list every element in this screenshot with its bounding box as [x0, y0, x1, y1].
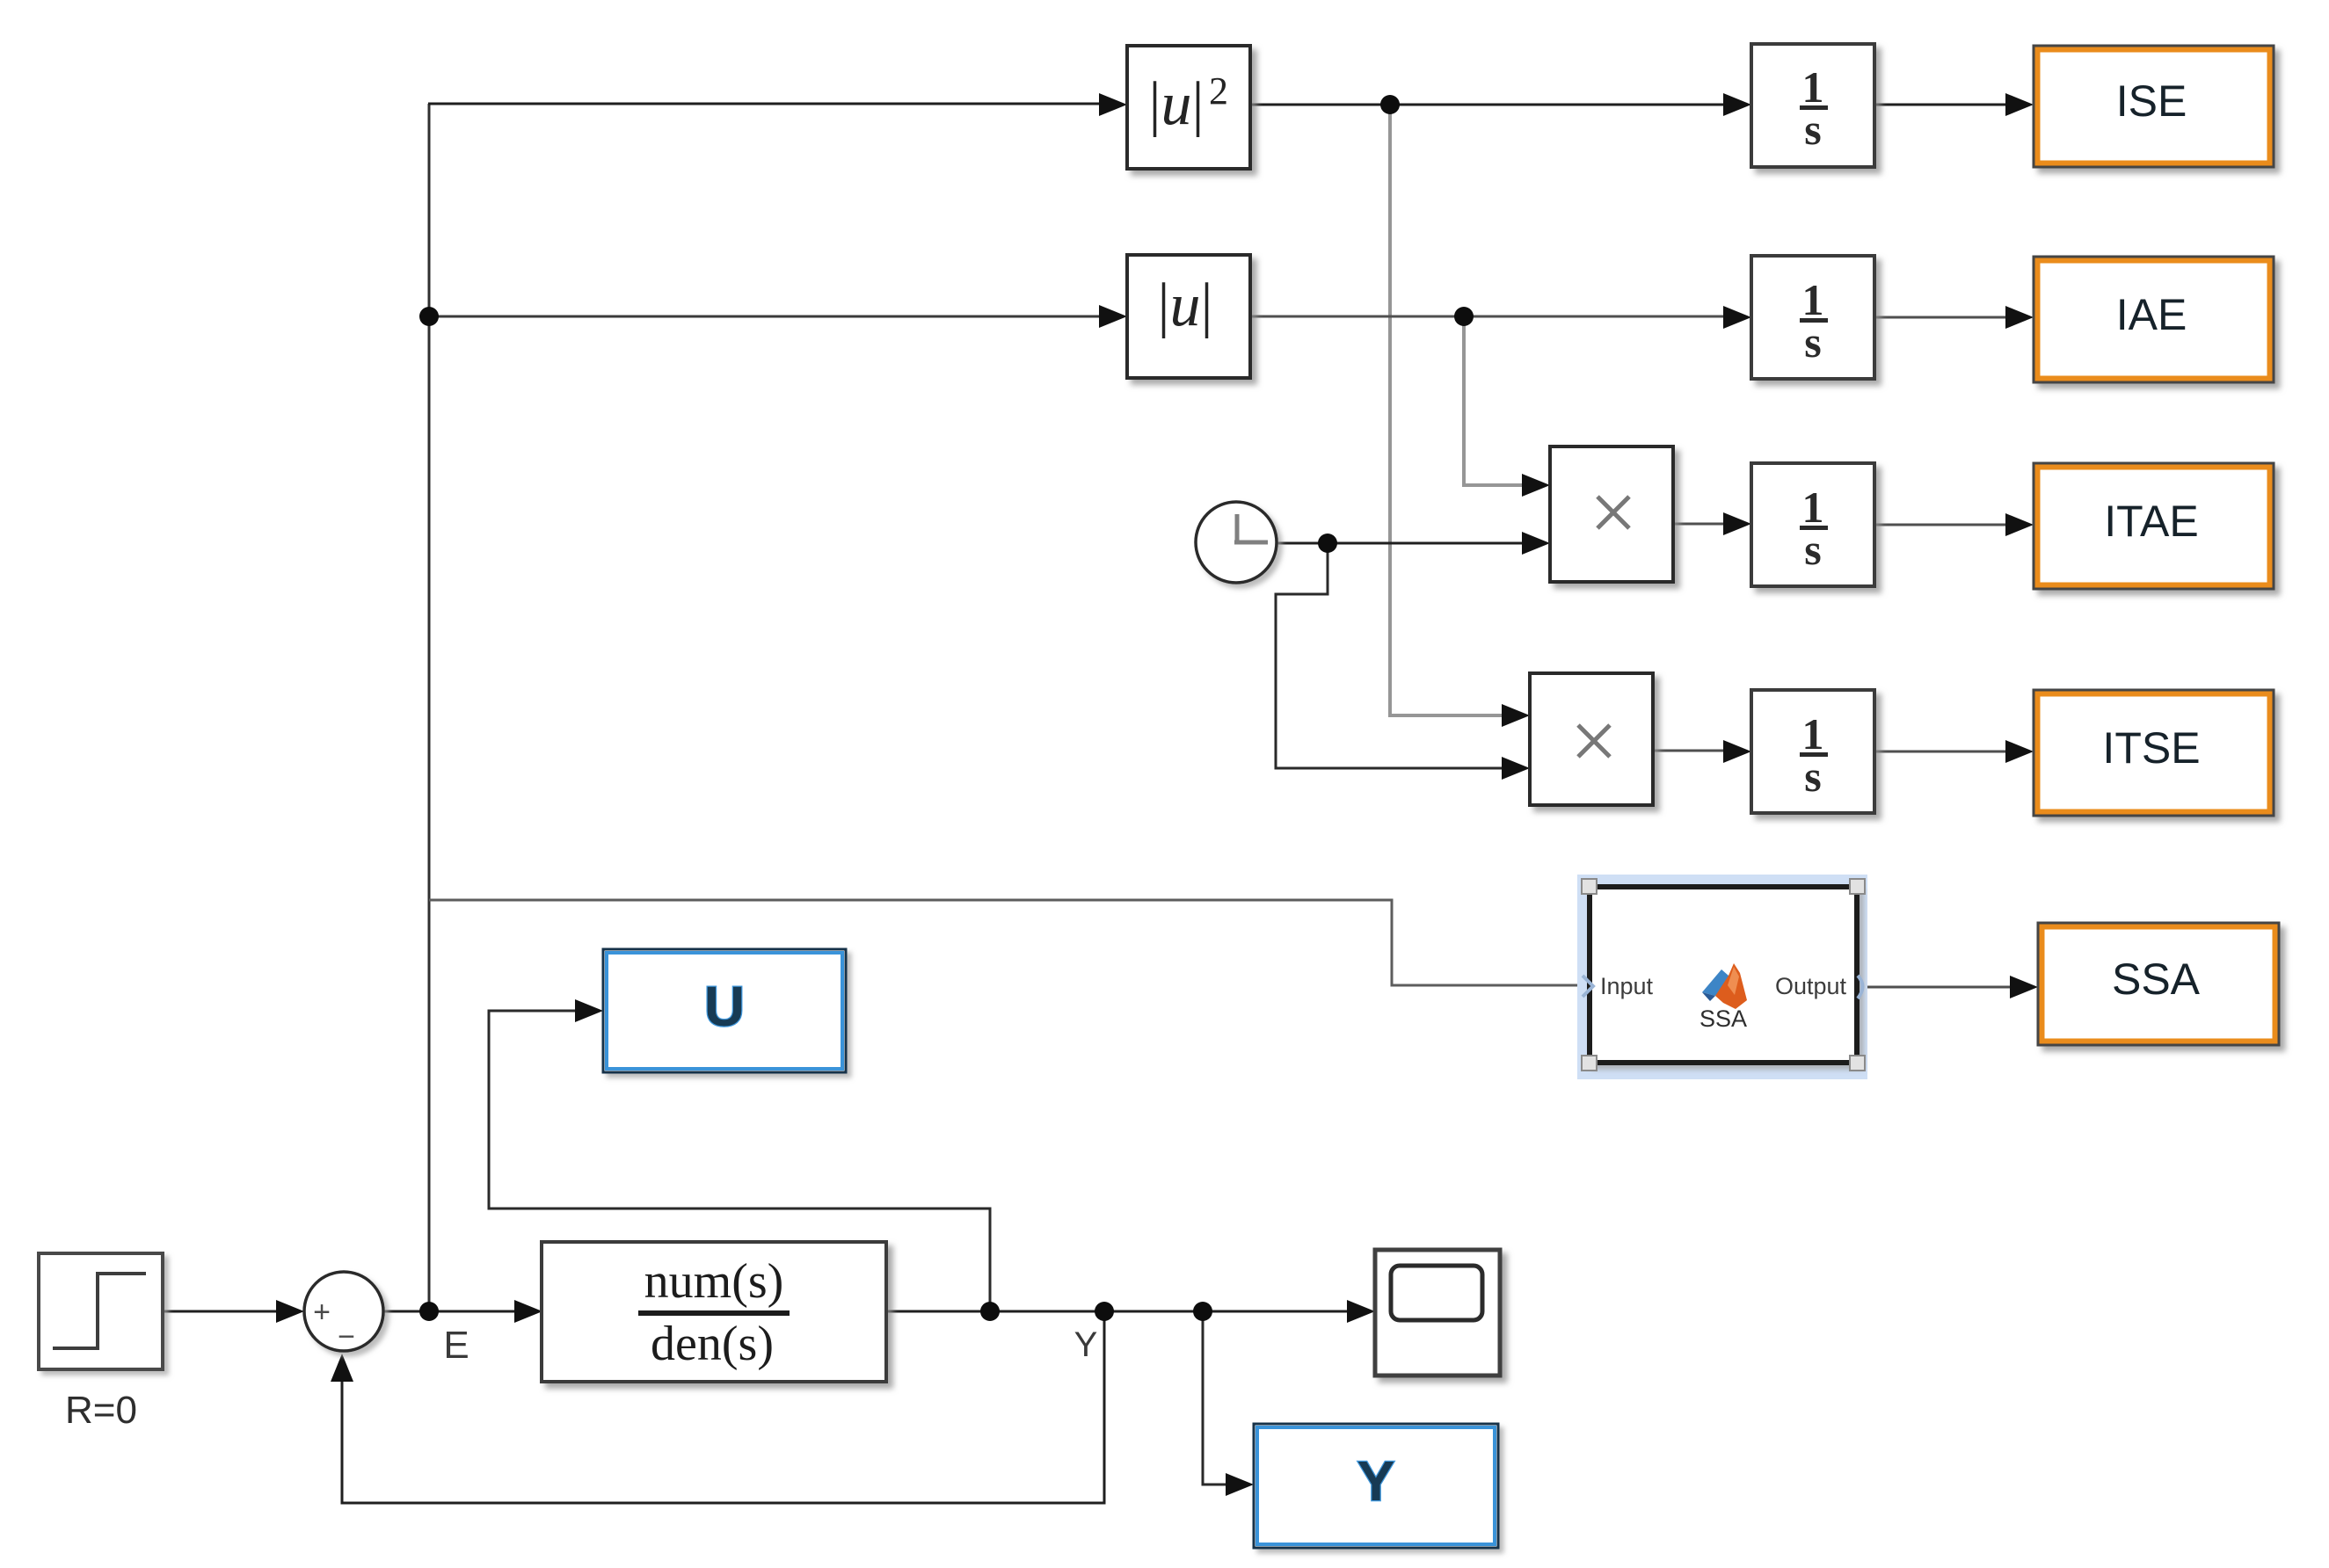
- svg-text:|u|: |u|: [1148, 70, 1204, 138]
- svg-text:ITAE: ITAE: [2104, 497, 2198, 546]
- ARROWHEADS: [276, 93, 2038, 1496]
- wire: gray drop from |u|2 junction to product2 input1: [1390, 105, 1505, 715]
- wire: TF output main line to scope: [886, 1310, 1351, 1313]
- svg-text:ITSE: ITSE: [2102, 723, 2200, 773]
- ISE display block: [2034, 46, 2274, 167]
- IAE display block: [2034, 257, 2274, 382]
- wire: clock output to product1 input2: [1277, 542, 1525, 545]
- svg-text:num(s): num(s): [644, 1254, 784, 1309]
- arrow into sum: [276, 1300, 304, 1323]
- svg-text:E: E: [443, 1324, 469, 1367]
- arrow into 1/s row4: [1723, 740, 1751, 763]
- svg-text:R=0: R=0: [65, 1389, 137, 1432]
- svg-text:den(s): den(s): [651, 1317, 774, 1371]
- integrator 1/s row4: [1751, 690, 1874, 813]
- svg-text:U: U: [704, 975, 745, 1038]
- Y branch junction dot: [1193, 1302, 1212, 1321]
- arrow into U block: [575, 999, 603, 1022]
- scope block: [1375, 1250, 1500, 1376]
- svg-text:−: −: [338, 1320, 355, 1354]
- wire: product1 output to 1/s row3: [1673, 523, 1728, 526]
- svg-text:Output: Output: [1775, 973, 1847, 999]
- svg-text:+: +: [313, 1296, 331, 1329]
- Y to-workspace block: [1254, 1424, 1498, 1548]
- arrow into transfer fn: [514, 1300, 542, 1323]
- product1 block (t x |e|): [1550, 446, 1673, 582]
- svg-text:s: s: [1804, 525, 1821, 574]
- label R=0: [65, 1389, 137, 1432]
- U to-workspace block: [603, 949, 846, 1072]
- wire: |u| output to 1/s row2: [1250, 316, 1728, 318]
- node E label: [443, 1324, 469, 1367]
- arrow into product1 input1: [1522, 474, 1550, 497]
- svg-text:Y: Y: [1074, 1325, 1098, 1364]
- wire: |u|2 output to 1/s: [1250, 104, 1728, 106]
- arrow into IAE: [2005, 306, 2034, 329]
- wire: Y branch down into Y block: [1203, 1311, 1230, 1485]
- svg-text:IAE: IAE: [2116, 290, 2187, 339]
- svg-text:s: s: [1804, 751, 1821, 801]
- product2 block (t x e2): [1530, 673, 1653, 805]
- step block R=0: [39, 1253, 163, 1369]
- svg-text:Y: Y: [1357, 1449, 1395, 1513]
- wire: gray drop from |u| junction to product1 input1: [1464, 316, 1525, 485]
- svg-text:s: s: [1804, 317, 1821, 367]
- node E junction dot: [419, 1302, 439, 1321]
- ITAE display block: [2034, 463, 2274, 589]
- clock block: [1196, 502, 1277, 583]
- arrow into product2 input2: [1502, 757, 1530, 780]
- wire: 1/s row3 to ITAE display: [1874, 524, 2010, 526]
- output port mark: [1858, 976, 1863, 998]
- svg-text:ISE: ISE: [2116, 76, 2187, 126]
- svg-text:SSA: SSA: [2112, 955, 2201, 1004]
- arrow into ISE: [2005, 93, 2034, 116]
- integrator 1/s row1: [1751, 44, 1874, 167]
- |u| block (abs of error): [1127, 255, 1250, 378]
- svg-text:2: 2: [1209, 69, 1228, 113]
- svg-text:SSA: SSA: [1699, 1005, 1747, 1032]
- wire: row1 trunk to |u|2 input: [428, 103, 1103, 105]
- wire: step to sum: [163, 1310, 300, 1313]
- wire: product2 output to 1/s row4: [1653, 750, 1728, 752]
- node Y label: [1074, 1325, 1098, 1364]
- transfer function block num(s)/den(s): [542, 1242, 886, 1382]
- svg-text:|u|: |u|: [1157, 272, 1212, 339]
- arrow into ITAE: [2005, 513, 2034, 536]
- wire: left trunk vertical from node E up to top: [428, 104, 431, 1311]
- svg-text:s: s: [1804, 105, 1821, 154]
- svg-text:Input: Input: [1600, 973, 1654, 999]
- arrow into scope: [1347, 1300, 1375, 1323]
- wire: 1/s row2 to IAE display: [1874, 316, 2010, 319]
- arrow into product2 input1: [1502, 704, 1530, 727]
- arrow up into sum bottom: [331, 1354, 353, 1382]
- arrow into 1/s row2: [1723, 306, 1751, 329]
- MATLAB function block SSA (selected): [1577, 875, 1867, 1079]
- wire: row2 trunk to |u| input: [429, 316, 1103, 318]
- arrow into SSA display: [2010, 976, 2038, 998]
- wire: SSA tap from trunk to MATLAB fn input: [429, 900, 1583, 985]
- arrow into ITSE: [2005, 740, 2034, 763]
- sum block: [304, 1272, 383, 1354]
- arrow into Y block: [1226, 1473, 1254, 1496]
- wire: 1/s row1 to ISE display: [1874, 104, 2010, 106]
- corner grips: [1582, 879, 1865, 1071]
- wire: sum output to transfer fn (node E): [383, 1310, 538, 1313]
- wire: U tap from TF output junction up and left to U block: [489, 1011, 990, 1311]
- clock output junction dot: [1318, 534, 1337, 553]
- arrow into |u|2: [1099, 93, 1127, 116]
- |u|2 output junction dot: [1380, 95, 1400, 114]
- wire: 1/s row4 to ITSE display: [1874, 751, 2010, 753]
- input port chevron: [1583, 976, 1593, 997]
- ITSE display block: [2034, 690, 2274, 816]
- integrator 1/s row3: [1751, 463, 1874, 586]
- |u|2 block (square of error): [1127, 46, 1250, 169]
- wire: feedback from Y junction to sum bottom: [342, 1311, 1104, 1503]
- MATLAB logo: [1702, 963, 1747, 1009]
- trunk row2 junction dot: [419, 307, 439, 326]
- Y junction dot (feedback): [1095, 1302, 1114, 1321]
- wire: SSA fn output to SSA display: [1864, 986, 2013, 989]
- wire: clock branch down to product2 input2: [1276, 543, 1505, 768]
- arrow into |u|: [1099, 305, 1127, 328]
- TF output junction dot (U tap): [980, 1302, 1000, 1321]
- |u| output junction dot: [1454, 307, 1474, 326]
- arrow into 1/s row3: [1723, 512, 1751, 535]
- arrow into 1/s row1: [1723, 93, 1751, 116]
- integrator 1/s row2: [1751, 256, 1874, 379]
- arrow into product1 input2: [1522, 532, 1550, 555]
- SSA display block: [2038, 923, 2279, 1045]
